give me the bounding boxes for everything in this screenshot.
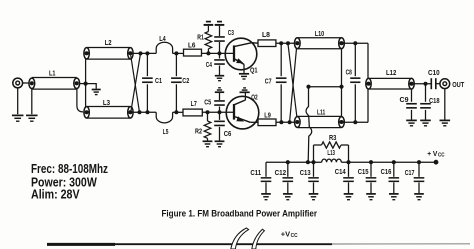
svg-text:C16: C16 [381, 169, 392, 176]
svg-text:L5: L5 [163, 129, 169, 136]
svg-text:L3: L3 [103, 100, 110, 107]
svg-text:C15: C15 [358, 169, 369, 176]
svg-text:C8: C8 [346, 70, 352, 77]
svg-text:L6: L6 [188, 43, 195, 50]
svg-text:L1: L1 [49, 71, 55, 78]
svg-text:C3: C3 [228, 30, 234, 37]
svg-text:Alim: 28V: Alim: 28V [31, 187, 80, 202]
svg-text:CC: CC [291, 233, 299, 239]
svg-text:R2: R2 [195, 128, 202, 135]
svg-text:L4: L4 [159, 36, 166, 43]
svg-text:C14: C14 [335, 169, 346, 176]
svg-text:C10: C10 [428, 70, 440, 77]
svg-text:C7: C7 [265, 78, 272, 85]
svg-text:C2: C2 [182, 78, 189, 85]
svg-text:+ V: + V [427, 151, 438, 158]
svg-text:L11: L11 [317, 110, 325, 117]
svg-text:Q2: Q2 [251, 95, 257, 102]
svg-text:L12: L12 [386, 70, 396, 77]
svg-text:C13: C13 [300, 170, 311, 177]
svg-text:L8: L8 [262, 32, 270, 39]
svg-text:L10: L10 [315, 31, 324, 38]
svg-text:L7: L7 [191, 101, 197, 108]
svg-text:CC: CC [438, 152, 445, 158]
svg-text:Figure 1. FM Broadband Power A: Figure 1. FM Broadband Power Amplifier [162, 208, 318, 218]
svg-text:OUT: OUT [452, 82, 465, 89]
svg-text:C5: C5 [204, 100, 211, 107]
svg-text:L9: L9 [264, 113, 271, 120]
svg-text:R3: R3 [329, 135, 336, 142]
svg-text:C18: C18 [429, 98, 440, 105]
svg-text:R1: R1 [197, 35, 204, 42]
svg-text:L13: L13 [327, 150, 335, 157]
svg-text:L2: L2 [105, 40, 112, 47]
svg-text:C17: C17 [405, 170, 415, 177]
svg-text:+V: +V [281, 230, 290, 239]
svg-text:C6: C6 [224, 131, 232, 138]
svg-text:C9: C9 [400, 97, 409, 104]
svg-text:C11: C11 [250, 170, 261, 177]
svg-text:C12: C12 [275, 170, 287, 177]
svg-text:C1: C1 [155, 78, 162, 85]
svg-text:Q1: Q1 [250, 68, 258, 75]
svg-text:C4: C4 [206, 62, 212, 69]
